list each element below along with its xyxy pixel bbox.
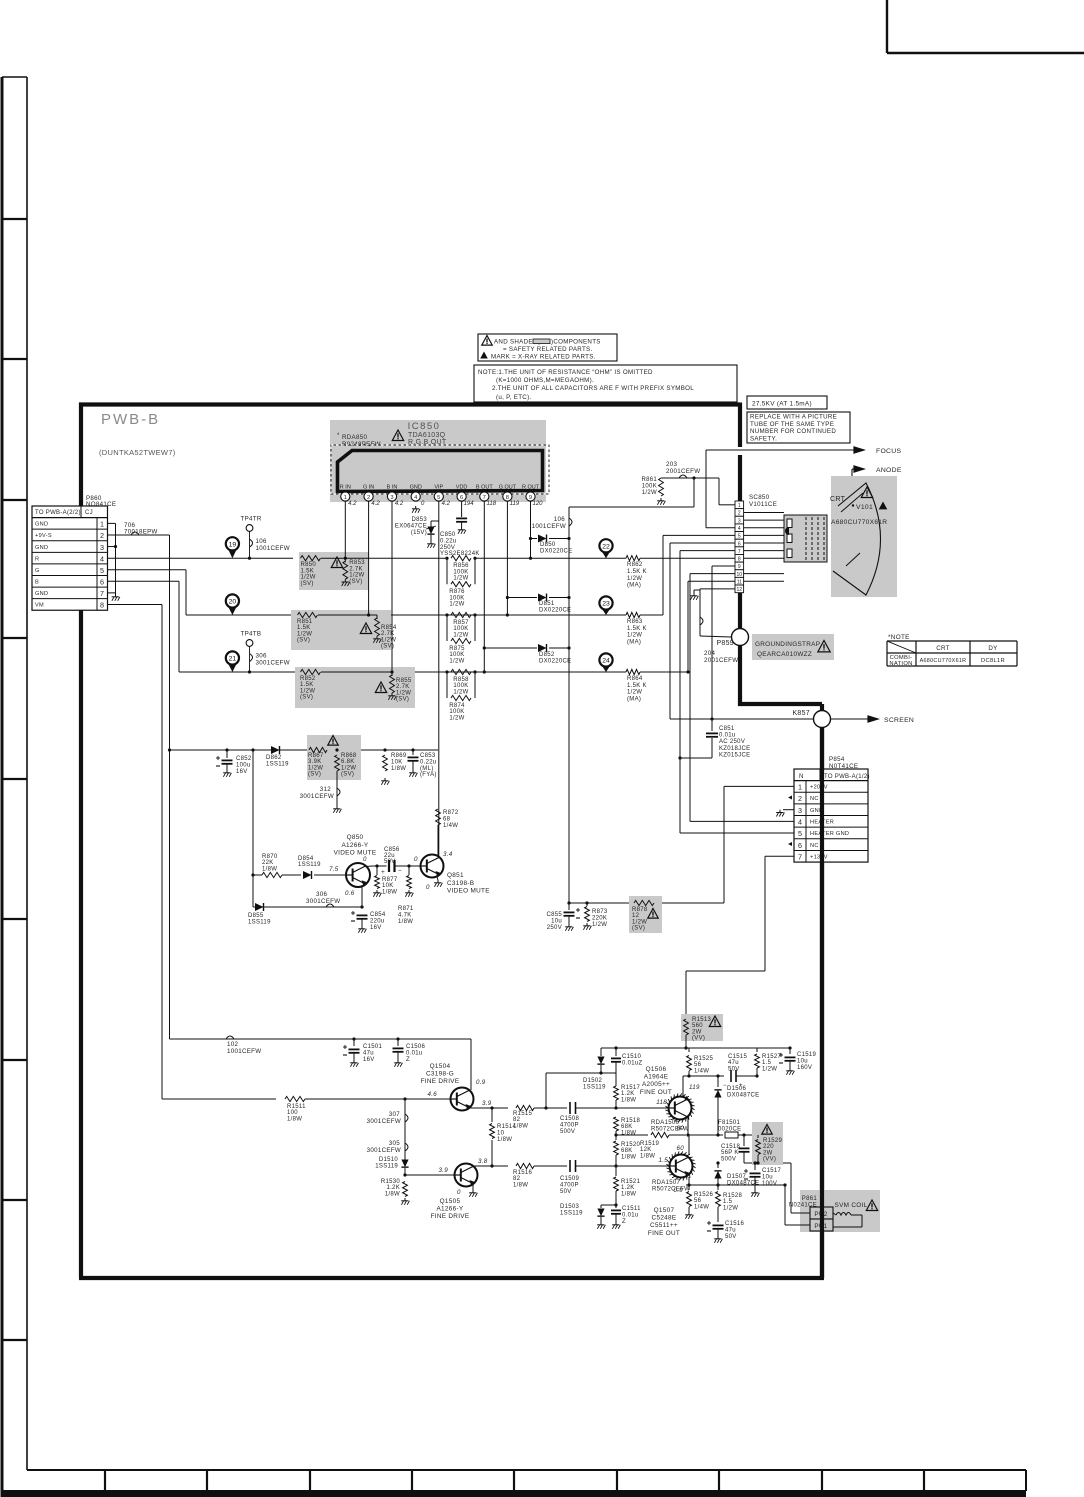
svg-text:3: 3 xyxy=(100,543,104,552)
svg-text:3.9K: 3.9K xyxy=(308,759,322,765)
svg-text:1.5K K: 1.5K K xyxy=(627,626,647,632)
svg-text:DX0487CE: DX0487CE xyxy=(727,1180,759,1186)
svg-text:R870: R870 xyxy=(262,854,278,860)
svg-text:1/2W: 1/2W xyxy=(627,633,642,639)
svg-text:R867: R867 xyxy=(308,753,324,759)
svg-text:A680CU770X61R: A680CU770X61R xyxy=(831,519,887,526)
svg-text:50V: 50V xyxy=(560,1189,572,1195)
svg-text:C1506: C1506 xyxy=(406,1044,426,1050)
svg-text:D1506: D1506 xyxy=(727,1086,747,1092)
svg-text:3.8: 3.8 xyxy=(478,1158,488,1165)
svg-text:305: 305 xyxy=(389,1140,400,1147)
svg-text:R871: R871 xyxy=(398,906,414,912)
svg-text:R852: R852 xyxy=(300,676,316,682)
svg-text:R857: R857 xyxy=(453,620,469,626)
svg-text:8: 8 xyxy=(100,601,104,610)
svg-text:100K: 100K xyxy=(453,683,468,689)
svg-text:3.9: 3.9 xyxy=(482,1100,492,1107)
svg-text:(MA): (MA) xyxy=(627,639,641,645)
svg-text:4700P: 4700P xyxy=(560,1122,579,1128)
svg-text:160V: 160V xyxy=(797,1065,812,1071)
svg-text:60: 60 xyxy=(677,1125,685,1132)
svg-text:1.5K: 1.5K xyxy=(297,625,311,631)
svg-text:R853: R853 xyxy=(349,560,365,566)
svg-text:(SV): (SV) xyxy=(341,772,354,778)
svg-text:Q1507: Q1507 xyxy=(654,1207,675,1214)
svg-text:1/2W: 1/2W xyxy=(592,922,607,928)
svg-text:1.5: 1.5 xyxy=(762,1060,772,1066)
svg-text:47u: 47u xyxy=(725,1227,736,1233)
svg-text:SAFETY.: SAFETY. xyxy=(750,436,777,443)
svg-text:194: 194 xyxy=(464,501,475,507)
svg-text:12: 12 xyxy=(632,913,640,919)
svg-text:4.2: 4.2 xyxy=(348,501,357,507)
svg-text:R872: R872 xyxy=(443,810,459,816)
svg-text:D852: D852 xyxy=(539,652,555,658)
svg-text:Z: Z xyxy=(406,1057,410,1063)
svg-text:MARK = X-RAY RELATED PARTS.: MARK = X-RAY RELATED PARTS. xyxy=(491,354,596,361)
svg-text:NUMBER FOR CONTINUED: NUMBER FOR CONTINUED xyxy=(750,428,836,435)
svg-text:0.01u: 0.01u xyxy=(622,1212,639,1218)
svg-text:A1964E: A1964E xyxy=(644,1074,669,1081)
svg-text:HEATER GND: HEATER GND xyxy=(810,831,849,837)
svg-text:1/8W: 1/8W xyxy=(287,1116,302,1122)
svg-text:A1266-Y: A1266-Y xyxy=(342,842,369,849)
svg-text:1/2W: 1/2W xyxy=(300,688,315,694)
svg-text:R IN: R IN xyxy=(340,485,351,491)
svg-text:0.22u: 0.22u xyxy=(440,538,457,544)
svg-text:C1501: C1501 xyxy=(363,1044,383,1050)
svg-text:82: 82 xyxy=(513,1117,521,1123)
svg-text:0: 0 xyxy=(457,1189,461,1196)
svg-text:D1507: D1507 xyxy=(727,1174,747,1180)
svg-text:(FYA): (FYA) xyxy=(420,772,437,778)
svg-text:2W: 2W xyxy=(763,1150,773,1156)
svg-text:= SAFETY RELATED PARTS.: = SAFETY RELATED PARTS. xyxy=(503,346,592,353)
svg-text:R1516: R1516 xyxy=(513,1170,533,1176)
svg-text:GND: GND xyxy=(35,591,48,597)
svg-text:4: 4 xyxy=(798,818,802,827)
svg-text:2.THE UNIT OF ALL CAPACITORS A: 2.THE UNIT OF ALL CAPACITORS ARE F WITH … xyxy=(492,385,694,392)
svg-text:SC850: SC850 xyxy=(749,494,770,501)
svg-text:D853: D853 xyxy=(411,517,427,523)
svg-text:68: 68 xyxy=(443,816,451,822)
svg-text:0.01uZ: 0.01uZ xyxy=(622,1060,643,1066)
svg-text:1SS119: 1SS119 xyxy=(375,1163,398,1169)
svg-text:Q850: Q850 xyxy=(347,834,364,841)
svg-text:500V: 500V xyxy=(721,1156,736,1162)
svg-text:FOCUS: FOCUS xyxy=(876,448,901,455)
svg-text:100u: 100u xyxy=(236,762,251,768)
svg-text:R873: R873 xyxy=(592,909,608,915)
svg-text:1/2W: 1/2W xyxy=(723,1205,738,1211)
svg-text:1001CEFW: 1001CEFW xyxy=(256,545,290,552)
svg-text:AC 250V: AC 250V xyxy=(719,739,745,745)
svg-text:56P K: 56P K xyxy=(721,1150,739,1156)
svg-text:1.5: 1.5 xyxy=(723,1199,733,1205)
svg-text:1/8W: 1/8W xyxy=(513,1123,528,1129)
svg-text:1/8W: 1/8W xyxy=(621,1097,636,1103)
svg-text:16V: 16V xyxy=(370,925,382,931)
svg-text:7.5: 7.5 xyxy=(329,866,339,873)
svg-text:312: 312 xyxy=(320,786,331,793)
svg-text:R1519: R1519 xyxy=(640,1141,660,1147)
svg-text:+9V-S: +9V-S xyxy=(35,533,52,539)
svg-text:ANODE: ANODE xyxy=(876,467,902,474)
svg-text:N: N xyxy=(799,773,804,780)
svg-text:(MA): (MA) xyxy=(627,583,641,589)
svg-text:1/2W: 1/2W xyxy=(449,658,464,664)
svg-text:R5072CEFW: R5072CEFW xyxy=(652,1186,690,1192)
svg-text:(SV): (SV) xyxy=(301,581,314,587)
svg-text:G OUT: G OUT xyxy=(499,485,517,491)
svg-text:1/4W: 1/4W xyxy=(694,1204,709,1210)
svg-text:3001CEFW: 3001CEFW xyxy=(367,1118,401,1125)
svg-text:500V: 500V xyxy=(560,1129,575,1135)
svg-text:1001CEFW: 1001CEFW xyxy=(227,1048,261,1055)
svg-text:1/2W: 1/2W xyxy=(453,632,468,638)
svg-text:106: 106 xyxy=(256,538,267,545)
svg-text:82: 82 xyxy=(513,1176,521,1182)
svg-text:TP4TR: TP4TR xyxy=(241,516,262,523)
svg-text:R1527: R1527 xyxy=(762,1054,782,1060)
svg-text:(SV): (SV) xyxy=(297,638,310,644)
svg-text:R851: R851 xyxy=(297,619,313,625)
svg-text:VM: VM xyxy=(35,603,44,609)
svg-text:4.7K: 4.7K xyxy=(398,912,412,918)
svg-text:2001CEFW: 2001CEFW xyxy=(666,468,700,475)
svg-text:24: 24 xyxy=(602,658,610,665)
svg-text:47u: 47u xyxy=(728,1060,739,1066)
svg-text:R1513: R1513 xyxy=(692,1017,712,1023)
svg-text:3001CEFW: 3001CEFW xyxy=(256,660,290,667)
svg-text:C854: C854 xyxy=(370,912,386,918)
svg-text:23: 23 xyxy=(602,601,610,608)
svg-text:TO PWB-A(1/2): TO PWB-A(1/2) xyxy=(824,774,870,780)
svg-text:R877: R877 xyxy=(382,877,398,883)
svg-text:1SS119: 1SS119 xyxy=(560,1210,583,1216)
svg-text:R1511: R1511 xyxy=(287,1104,306,1110)
svg-text:K857: K857 xyxy=(792,710,810,717)
svg-text:0.6: 0.6 xyxy=(345,890,355,897)
svg-text:16V: 16V xyxy=(236,769,248,775)
svg-text:D850: D850 xyxy=(540,542,556,548)
svg-text:22: 22 xyxy=(602,543,610,550)
svg-text:NOTE:1.THE UNIT OF RESISTANCE: NOTE:1.THE UNIT OF RESISTANCE “OHM” IS O… xyxy=(478,369,653,376)
svg-text:16V: 16V xyxy=(363,1057,375,1063)
svg-text:CRT: CRT xyxy=(936,645,950,652)
svg-text:7: 7 xyxy=(483,495,486,501)
svg-text:1: 1 xyxy=(798,783,802,792)
svg-text:A680CU770X61R: A680CU770X61R xyxy=(920,658,967,664)
svg-text:FINE OUT: FINE OUT xyxy=(640,1089,672,1096)
svg-text:C1517: C1517 xyxy=(762,1168,782,1174)
svg-text:56: 56 xyxy=(694,1198,702,1204)
svg-text:102: 102 xyxy=(227,1041,238,1048)
svg-text:2W: 2W xyxy=(692,1029,702,1035)
svg-text:*NOTE: *NOTE xyxy=(888,634,910,641)
svg-text:B IN: B IN xyxy=(387,485,398,491)
svg-text:R1520: R1520 xyxy=(621,1142,641,1148)
svg-text:2: 2 xyxy=(367,495,370,501)
svg-text:R1515: R1515 xyxy=(513,1111,533,1117)
svg-text:(ML): (ML) xyxy=(420,766,434,772)
svg-text:DX0220CE: DX0220CE xyxy=(539,658,571,664)
svg-text:68K: 68K xyxy=(621,1124,633,1130)
svg-text:(SV): (SV) xyxy=(632,926,645,932)
svg-text:7: 7 xyxy=(100,589,104,598)
svg-text:P854: P854 xyxy=(829,756,845,763)
svg-text:C853: C853 xyxy=(420,753,436,759)
svg-text:RDA1506: RDA1506 xyxy=(651,1120,679,1126)
svg-text:4.2: 4.2 xyxy=(442,501,451,507)
svg-text:C1515: C1515 xyxy=(728,1054,748,1060)
svg-text:RDA850: RDA850 xyxy=(342,434,367,441)
svg-text:306: 306 xyxy=(256,653,267,660)
svg-text:SCREEN: SCREEN xyxy=(884,717,914,724)
svg-text:1SS119: 1SS119 xyxy=(248,919,271,925)
svg-text:R856: R856 xyxy=(453,563,469,569)
svg-text:220: 220 xyxy=(763,1144,774,1150)
svg-text:NC: NC xyxy=(810,843,819,849)
svg-text:R858: R858 xyxy=(453,677,469,683)
svg-text:119: 119 xyxy=(689,1084,700,1091)
svg-text:106: 106 xyxy=(554,516,565,523)
svg-text:FINE DRIVE: FINE DRIVE xyxy=(431,1213,470,1220)
svg-text:B: B xyxy=(35,580,39,586)
svg-text:R1521: R1521 xyxy=(621,1179,641,1185)
svg-text:KZ018JCE: KZ018JCE xyxy=(719,746,750,752)
svg-text:7: 7 xyxy=(798,852,802,861)
svg-text:Q1506: Q1506 xyxy=(646,1066,667,1073)
svg-text:50V: 50V xyxy=(728,1066,740,1072)
svg-text:1/8W: 1/8W xyxy=(385,1191,400,1197)
svg-text:1/2W: 1/2W xyxy=(308,765,323,771)
svg-text:56: 56 xyxy=(694,1062,702,1068)
svg-text:22K: 22K xyxy=(262,860,274,866)
svg-text:1/8W: 1/8W xyxy=(621,1191,636,1197)
svg-text:R1529: R1529 xyxy=(763,1138,783,1144)
svg-text:CRT: CRT xyxy=(830,496,846,503)
svg-text:1/4W: 1/4W xyxy=(694,1068,709,1074)
svg-text:1/2W: 1/2W xyxy=(632,919,647,925)
svg-text:G IN: G IN xyxy=(363,485,374,491)
svg-text:R878: R878 xyxy=(632,907,648,913)
svg-text:70018EPW: 70018EPW xyxy=(124,529,158,536)
svg-text:+200V: +200V xyxy=(810,785,828,791)
svg-text:D1503: D1503 xyxy=(560,1204,580,1210)
svg-text:0.01u: 0.01u xyxy=(719,733,736,739)
svg-text:1/2W: 1/2W xyxy=(301,575,316,581)
svg-text:+130V: +130V xyxy=(810,854,828,860)
svg-text:GND: GND xyxy=(410,485,422,491)
svg-text:−: − xyxy=(398,868,402,875)
svg-text:R1517: R1517 xyxy=(621,1085,641,1091)
svg-text:1/2W: 1/2W xyxy=(449,715,464,721)
svg-text:250V: 250V xyxy=(547,925,562,931)
svg-text:P861: P861 xyxy=(802,1196,818,1202)
svg-text:1/4W: 1/4W xyxy=(443,823,458,829)
svg-text:A2005++: A2005++ xyxy=(642,1081,670,1088)
svg-text:FINE OUT: FINE OUT xyxy=(648,1230,680,1237)
svg-text:118: 118 xyxy=(656,1099,667,1106)
svg-text:DX0220CE: DX0220CE xyxy=(540,548,572,554)
svg-text:1.5K K: 1.5K K xyxy=(627,683,647,689)
svg-text:C3198-B: C3198-B xyxy=(447,880,474,887)
svg-text:D855: D855 xyxy=(248,913,264,919)
svg-text:EX0647CE: EX0647CE xyxy=(395,523,427,529)
svg-text:DX0220CE: DX0220CE xyxy=(539,607,571,613)
svg-text:GND: GND xyxy=(35,522,48,528)
svg-text:1/2W: 1/2W xyxy=(627,690,642,696)
svg-text:1/8W: 1/8W xyxy=(391,766,406,772)
svg-text:68K: 68K xyxy=(621,1148,633,1154)
svg-text:R850: R850 xyxy=(301,562,317,568)
svg-text:TUBE OF THE SAME TYPE: TUBE OF THE SAME TYPE xyxy=(750,421,834,428)
svg-text:10K: 10K xyxy=(382,883,394,889)
svg-text:19: 19 xyxy=(229,541,237,548)
svg-text:119: 119 xyxy=(510,501,520,507)
svg-text:21: 21 xyxy=(229,656,237,663)
svg-text:R854: R854 xyxy=(381,625,397,631)
svg-text:1/2W: 1/2W xyxy=(381,637,396,643)
svg-text:R868: R868 xyxy=(341,753,357,759)
svg-text:3001CEFW: 3001CEFW xyxy=(306,898,340,905)
svg-text:1/8W: 1/8W xyxy=(398,919,413,925)
svg-text:0: 0 xyxy=(426,884,430,891)
svg-text:1/2W: 1/2W xyxy=(349,573,364,579)
svg-text:IC850: IC850 xyxy=(408,421,441,432)
svg-text:50V: 50V xyxy=(384,859,396,865)
svg-text:R1530: R1530 xyxy=(381,1179,401,1185)
svg-text:10u: 10u xyxy=(551,918,562,924)
svg-text:(SV): (SV) xyxy=(396,697,409,703)
svg-text:0.22u: 0.22u xyxy=(420,759,437,765)
svg-text:1.2K: 1.2K xyxy=(621,1091,635,1097)
svg-text:(SV): (SV) xyxy=(300,695,313,701)
svg-text:10u: 10u xyxy=(797,1058,808,1064)
svg-text:1.5K: 1.5K xyxy=(300,682,314,688)
svg-text:(DUNTKA52TWEW7): (DUNTKA52TWEW7) xyxy=(99,448,176,457)
svg-text:4.6: 4.6 xyxy=(427,1091,437,1098)
svg-text:0: 0 xyxy=(363,856,367,863)
svg-text:R1525: R1525 xyxy=(694,1056,714,1062)
svg-text:(SV): (SV) xyxy=(349,579,362,585)
svg-text:1/2W: 1/2W xyxy=(341,765,356,771)
svg-text:(u, P, ETC).: (u, P, ETC). xyxy=(496,394,531,401)
svg-text:204: 204 xyxy=(704,650,715,657)
svg-text:6: 6 xyxy=(100,578,104,587)
svg-text:6.8K: 6.8K xyxy=(341,759,355,765)
svg-text:TP4TB: TP4TB xyxy=(241,631,262,638)
svg-text:5: 5 xyxy=(437,495,440,501)
svg-text:DC8L1R: DC8L1R xyxy=(981,658,1005,664)
svg-text:GROUNDINGSTRAP: GROUNDINGSTRAP xyxy=(755,641,820,648)
svg-text:100K: 100K xyxy=(449,652,464,658)
svg-text:NC: NC xyxy=(810,796,819,802)
svg-text:0: 0 xyxy=(414,856,418,863)
svg-text:100K: 100K xyxy=(449,709,464,715)
svg-text:1/8W: 1/8W xyxy=(382,889,397,895)
svg-text:3001CEFW: 3001CEFW xyxy=(367,1147,401,1154)
svg-text:1.5: 1.5 xyxy=(658,1157,668,1164)
svg-text:2.7K: 2.7K xyxy=(381,631,395,637)
svg-text:C5248E: C5248E xyxy=(652,1215,677,1222)
svg-text:12: 12 xyxy=(737,587,743,593)
svg-text:V1011CE: V1011CE xyxy=(749,501,777,508)
svg-text:C1511: C1511 xyxy=(622,1206,641,1212)
svg-text:560: 560 xyxy=(692,1023,703,1029)
svg-text:203: 203 xyxy=(666,461,677,468)
svg-text:1/2W: 1/2W xyxy=(642,490,657,496)
svg-text:Q1505: Q1505 xyxy=(440,1198,461,1205)
svg-text:1/2W: 1/2W xyxy=(627,576,642,582)
svg-text:1/2W: 1/2W xyxy=(453,576,468,582)
svg-text:R1518: R1518 xyxy=(621,1118,641,1124)
svg-text:1/8W: 1/8W xyxy=(640,1153,655,1159)
svg-text:D862: D862 xyxy=(266,755,282,761)
svg-text:R869: R869 xyxy=(391,753,407,759)
svg-text:VIP: VIP xyxy=(434,485,443,491)
svg-text:3001CEFW: 3001CEFW xyxy=(300,793,334,800)
svg-text:0.01u: 0.01u xyxy=(406,1050,423,1056)
svg-text:D854: D854 xyxy=(298,856,314,862)
svg-text:V101: V101 xyxy=(856,504,873,511)
svg-text:C1509: C1509 xyxy=(560,1176,580,1182)
svg-text:1/2W: 1/2W xyxy=(396,690,411,696)
svg-text:C1518: C1518 xyxy=(721,1144,741,1150)
svg-text:CJ: CJ xyxy=(85,510,93,516)
svg-text:QEARCA010WZZ: QEARCA010WZZ xyxy=(757,651,812,658)
svg-text:1.2K: 1.2K xyxy=(386,1185,400,1191)
svg-text:R OUT: R OUT xyxy=(522,485,540,491)
svg-text:1/2W: 1/2W xyxy=(453,689,468,695)
svg-text:B OUT: B OUT xyxy=(476,485,493,491)
svg-text:10: 10 xyxy=(497,1130,505,1136)
svg-text:1/8W: 1/8W xyxy=(621,1154,636,1160)
svg-text:DX0487CE: DX0487CE xyxy=(727,1092,759,1098)
svg-text:0.9: 0.9 xyxy=(673,1187,683,1194)
svg-text:G: G xyxy=(35,568,40,574)
svg-text:1/8W: 1/8W xyxy=(513,1182,528,1188)
svg-text:20: 20 xyxy=(229,599,237,606)
svg-text:1/8W: 1/8W xyxy=(262,866,277,872)
svg-text:Q1504: Q1504 xyxy=(430,1063,451,1070)
svg-text:R: R xyxy=(35,556,39,562)
svg-text:8: 8 xyxy=(506,495,509,501)
svg-text:100K: 100K xyxy=(449,595,464,601)
svg-text:TDA6103Q: TDA6103Q xyxy=(408,432,446,439)
svg-text:R863: R863 xyxy=(627,619,643,625)
svg-text:RDA1507: RDA1507 xyxy=(652,1180,680,1186)
svg-text:220u: 220u xyxy=(370,918,385,924)
svg-text:50V: 50V xyxy=(725,1234,737,1240)
svg-text:10u: 10u xyxy=(762,1174,773,1180)
svg-text:1/2W: 1/2W xyxy=(762,1066,777,1072)
svg-text:KZ015JCE: KZ015JCE xyxy=(719,752,750,758)
svg-text:(15V): (15V) xyxy=(411,530,427,536)
svg-text:4.2: 4.2 xyxy=(395,501,404,507)
svg-text:(VV): (VV) xyxy=(763,1157,776,1163)
svg-text:P859: P859 xyxy=(716,640,734,647)
svg-text:C1519: C1519 xyxy=(797,1052,817,1058)
svg-text:1: 1 xyxy=(100,520,104,529)
svg-text:C850: C850 xyxy=(440,532,456,538)
svg-text:100K: 100K xyxy=(642,483,657,489)
svg-text:(SV): (SV) xyxy=(308,772,321,778)
svg-text:R1528: R1528 xyxy=(723,1193,743,1199)
svg-text:60: 60 xyxy=(677,1145,685,1152)
